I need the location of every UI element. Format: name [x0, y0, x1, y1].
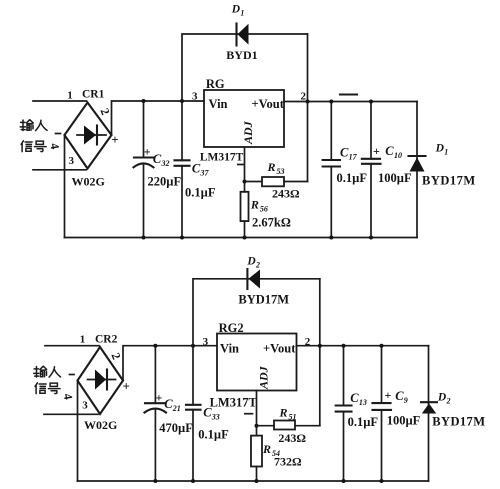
node dot C21 bottom: [153, 479, 157, 483]
diode D1 BYD1: [237, 24, 249, 46]
svg-text:32: 32: [161, 159, 170, 168]
svg-text:+: +: [156, 391, 163, 405]
node dot C17 top: [329, 100, 333, 104]
diode D1 BYD17M right: [409, 156, 426, 172]
svg-text:BYD17M: BYD17M: [238, 293, 289, 307]
svg-text:1: 1: [67, 89, 73, 101]
svg-text:33: 33: [211, 413, 220, 422]
svg-text:100µF: 100µF: [378, 171, 412, 185]
output wire top circuit: [284, 101, 417, 103]
svg-text:R: R: [267, 160, 276, 174]
capacitor C32 220uF: [134, 101, 154, 238]
node dot C33 bottom: [191, 479, 195, 483]
svg-text:+: +: [385, 388, 392, 402]
svg-text:RG: RG: [206, 77, 225, 91]
node dot C9 top: [380, 344, 384, 348]
svg-text:LM317T: LM317T: [210, 396, 258, 410]
node dot R54 bottom: [255, 479, 259, 483]
svg-text:CR2: CR2: [95, 333, 118, 345]
svg-text:243Ω: 243Ω: [278, 431, 306, 445]
svg-text:0.1µF: 0.1µF: [198, 428, 229, 442]
node dot C33 top: [191, 344, 195, 348]
diode D2 BYD17M loop: [247, 269, 260, 289]
svg-text:3: 3: [69, 155, 75, 167]
svg-text:LM317T: LM317T: [200, 152, 244, 164]
regulator U2 RG2 LM317T box: [217, 334, 297, 391]
svg-text:732Ω: 732Ω: [274, 454, 302, 468]
svg-text:1: 1: [444, 148, 448, 157]
svg-text:W02G: W02G: [72, 174, 105, 188]
bridge rectifier CR2 diamond W02G: [78, 347, 124, 414]
node dot C37 top: [180, 99, 184, 103]
svg-text:4: 4: [47, 142, 62, 150]
svg-text:3: 3: [192, 91, 198, 103]
svg-text:+Vout: +Vout: [263, 342, 296, 356]
svg-text:56: 56: [260, 205, 268, 214]
resistor R53 243ohm: [245, 177, 308, 186]
node dot C32 top: [142, 99, 146, 103]
svg-text:R: R: [262, 442, 271, 456]
svg-text:D: D: [437, 392, 447, 404]
tick near ADJ wire 2: [245, 413, 253, 415]
svg-text:R: R: [279, 406, 288, 420]
node dot R56 bottom: [243, 236, 247, 240]
node dot loop2/R51 riser: [318, 344, 322, 348]
svg-text:2.67kΩ: 2.67kΩ: [252, 216, 291, 230]
wire input upper (pin 1) bottom: [45, 345, 99, 347]
label 输入信号 (input signal) top: [20, 120, 47, 131]
svg-text:2: 2: [446, 397, 451, 406]
svg-text:+: +: [144, 145, 151, 159]
wire input upper (pin 1): [33, 100, 87, 102]
ground bus bottom circuit: [78, 480, 429, 482]
node dot C10 top: [369, 100, 373, 104]
node dot C21 top: [153, 344, 157, 348]
svg-text:0.1µF: 0.1µF: [185, 186, 216, 200]
svg-text:CR1: CR1: [82, 89, 105, 101]
node dot C13 top: [342, 344, 346, 348]
minus label over output: [340, 93, 357, 95]
svg-text:100µF: 100µF: [387, 414, 421, 428]
bridge rectifier CR1 diamond W02G: [65, 103, 112, 169]
tick near ADJ wire: [238, 164, 244, 166]
svg-text:37: 37: [200, 169, 210, 178]
svg-text:D: D: [435, 143, 445, 155]
svg-text:220µF: 220µF: [148, 175, 182, 189]
minus sign at pin 4: [70, 374, 75, 376]
svg-text:BYD1: BYD1: [226, 48, 257, 62]
ground bus top circuit: [65, 237, 418, 239]
svg-text:Vin: Vin: [209, 97, 228, 111]
protection loop: wire up-left of BYD1: [182, 34, 308, 101]
node dot loop/R53 riser: [306, 100, 310, 104]
svg-text:2: 2: [109, 351, 124, 362]
svg-text:21: 21: [172, 404, 181, 413]
resistor R51 243ohm: [257, 421, 320, 430]
node dot ADJ/R53/R56 junction: [243, 180, 247, 184]
svg-text:53: 53: [277, 167, 285, 176]
resistor R54 732ohm: [251, 436, 262, 481]
svg-text:1: 1: [80, 333, 86, 345]
protection loop 2: wire up-left of D2: [193, 279, 320, 346]
node dot C9 bottom: [380, 479, 384, 483]
svg-text:243Ω: 243Ω: [272, 187, 300, 201]
svg-text:13: 13: [359, 398, 367, 407]
wire input lower (pin 3): [33, 169, 86, 171]
wire input lower (pin 3) bottom: [44, 413, 98, 415]
wire from CR2 pin2 up to rail: [123, 346, 217, 381]
right rail bottom circuit: [428, 346, 430, 481]
diode inside CR1: [77, 126, 106, 145]
minus sign at pin 4: [56, 133, 61, 135]
label 输入信号 (input signal) bottom: [34, 366, 61, 377]
svg-text:Vin: Vin: [220, 342, 239, 356]
wire right side of D2 loop down to R51: [319, 279, 321, 426]
svg-text:W02G: W02G: [84, 418, 117, 432]
diode D2 BYD17M right: [421, 402, 437, 413]
svg-text:RG2: RG2: [219, 321, 244, 335]
svg-text:0.1µF: 0.1µF: [348, 415, 379, 429]
svg-text:+: +: [373, 144, 380, 158]
wire CR2 pin4 down: [77, 381, 79, 482]
wire right side of BYD1 loop down to R53: [307, 34, 309, 182]
svg-text:BYD17M: BYD17M: [432, 415, 485, 429]
ADJ pin wire 2: [256, 391, 258, 436]
right rail top circuit: [416, 102, 418, 238]
capacitor C9 100uF: [373, 346, 392, 481]
capacitor C17 0.1uF: [323, 102, 340, 238]
node dot ADJ2/R51/R54 junction: [255, 424, 259, 428]
regulator U1 RG LM317T box: [204, 90, 284, 147]
svg-text:2: 2: [255, 261, 260, 270]
svg-text:C: C: [385, 144, 394, 158]
svg-text:ADJ: ADJ: [241, 120, 255, 145]
node dot C17 bottom: [329, 236, 333, 240]
node dot C32 bottom: [142, 236, 146, 240]
svg-text:D: D: [231, 4, 241, 16]
capacitor C13 0.1uF: [336, 346, 352, 481]
output wire bottom circuit: [297, 345, 429, 347]
resistor R56 2.67k: [241, 192, 249, 238]
svg-text:3: 3: [82, 400, 88, 412]
capacitor C21 470uF: [145, 346, 167, 481]
svg-text:R: R: [250, 198, 259, 212]
svg-text:3: 3: [203, 336, 209, 348]
svg-text:ADJ: ADJ: [257, 365, 271, 390]
svg-text:BYD17M: BYD17M: [422, 174, 476, 188]
svg-text:17: 17: [349, 153, 358, 162]
svg-text:51: 51: [289, 413, 297, 422]
svg-text:1: 1: [240, 9, 244, 18]
svg-text:4: 4: [61, 392, 76, 400]
wire CR1 pin4 down: [64, 135, 66, 238]
svg-text:10: 10: [394, 151, 402, 160]
svg-text:470µF: 470µF: [159, 421, 193, 435]
ADJ pin wire: [244, 147, 246, 192]
svg-text:9: 9: [404, 396, 408, 405]
svg-text:D: D: [246, 256, 256, 268]
capacitor C10 100uF: [362, 102, 381, 238]
diode inside CR2: [88, 370, 116, 390]
svg-text:+Vout: +Vout: [252, 97, 285, 111]
capacitor C37 0.1uF: [175, 101, 190, 238]
svg-text:2: 2: [98, 106, 113, 117]
node dot C10 bottom: [369, 236, 373, 240]
svg-text:+: +: [111, 132, 118, 147]
node dot C37 bottom: [180, 236, 184, 240]
node dot C13 bottom: [342, 479, 346, 483]
wire from CR1 pin2 up to rail: [112, 101, 205, 135]
svg-text:0.1µF: 0.1µF: [337, 171, 368, 185]
capacitor C33 0.1uF: [186, 346, 201, 481]
